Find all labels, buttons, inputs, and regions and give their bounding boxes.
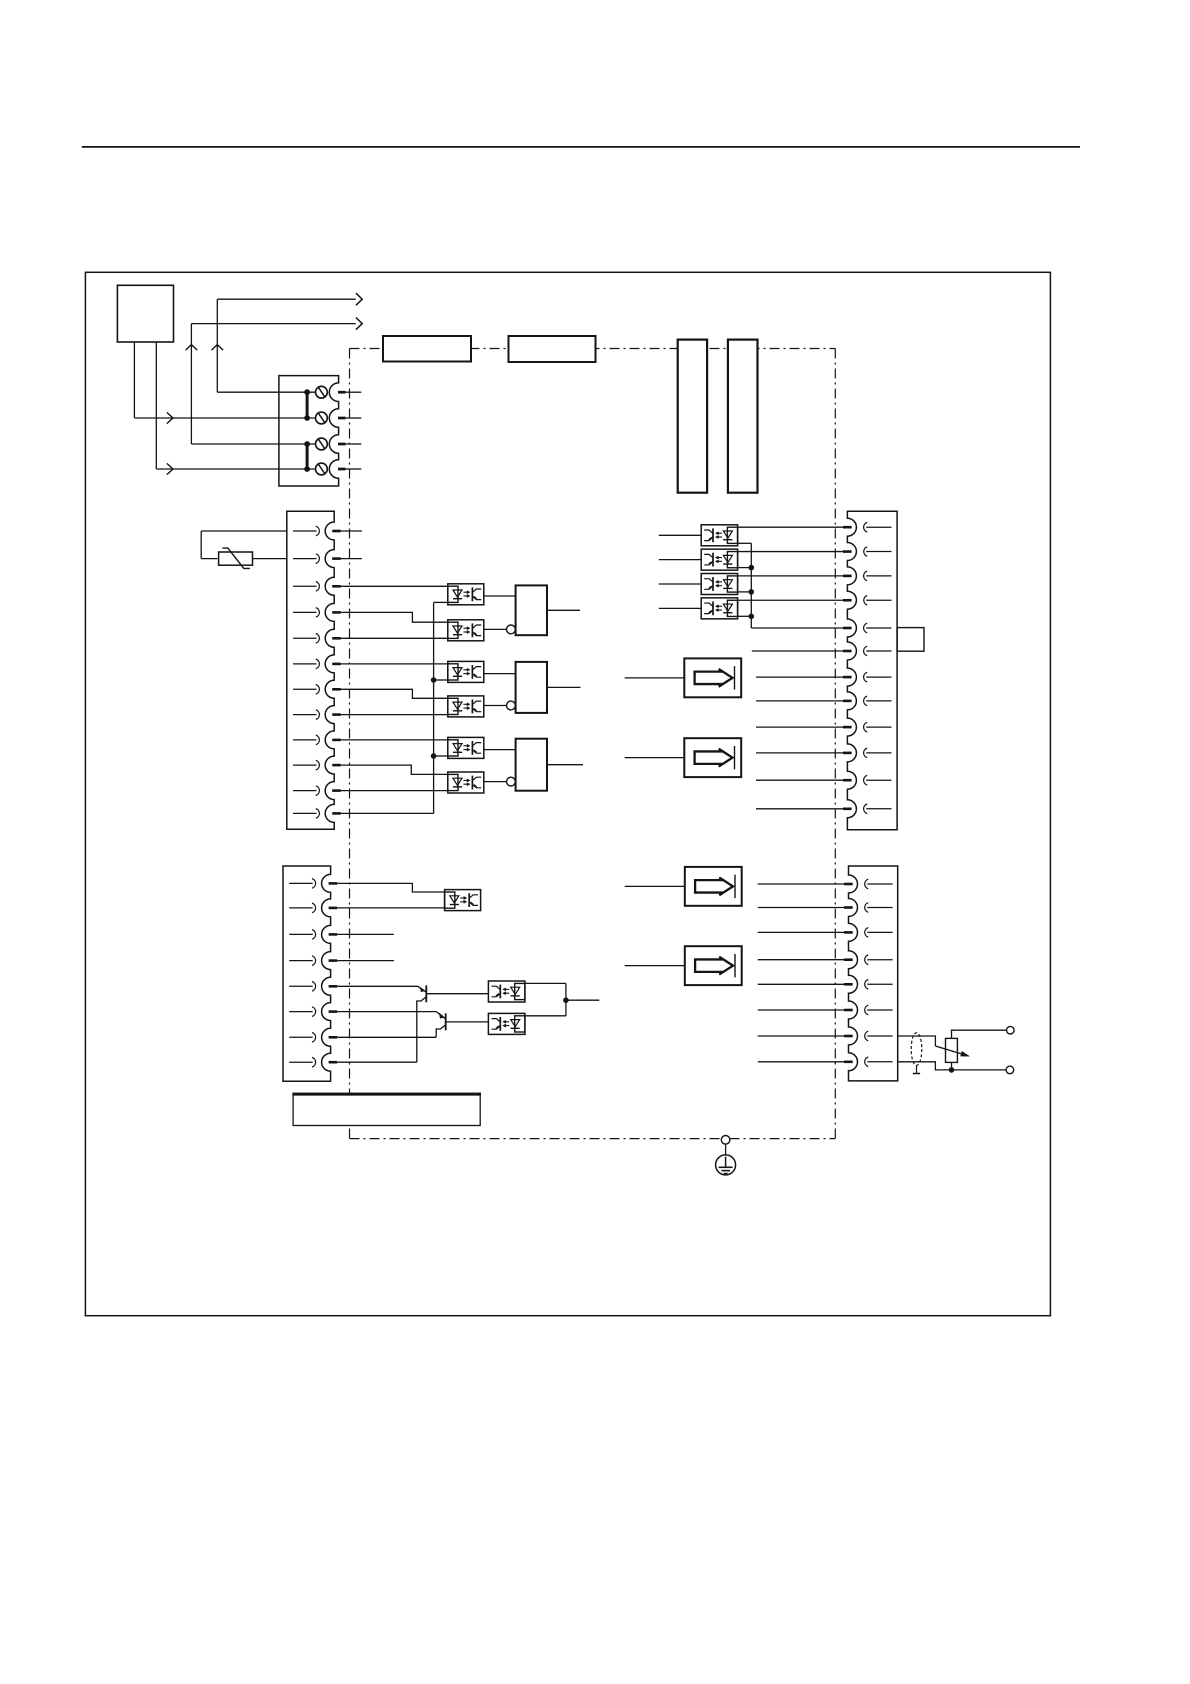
X30 pin 4 stub [843,599,852,602]
opto-coupler U3 [448,661,484,682]
X56 pin 8 arrow [289,1057,315,1067]
X31 pin 2 arrow [865,903,893,913]
terminal 2 pin stub and wire [338,417,361,420]
X55 pin 8 stub [332,713,341,716]
wire X56 pin 6 to transistor Q2 [337,1011,436,1013]
X56 pin 1 stub [329,882,338,885]
opto-coupler U4 [448,696,484,717]
wire X31 pin 2 [758,907,846,909]
driver A1 input wire [625,677,685,679]
wire X56 pin 8 to Q1 collector [337,1061,417,1063]
protective earth symbol [716,1155,736,1175]
X30 pin 2 arrow [864,547,892,557]
flow arrow up on L2 [186,345,198,351]
X31 pin 1 arrow [865,879,893,889]
opto-coupler U2 [448,620,484,641]
X30 pin 8 arrow [864,696,892,706]
screw terminal 4 [316,463,328,475]
opto U6 output wire [484,781,507,783]
wire X55 pin 2 stub inside [341,558,362,560]
terminal 3 pin stub and wire [338,443,361,446]
X30 pin 12 arrow [864,804,892,814]
X31 pin 3 arrow [865,928,893,938]
X55 pin 7 arrow [293,685,319,695]
wire Q2 base to opto U13 [446,1021,489,1023]
opto U4 output wire [484,705,507,707]
X56 pin 5 arrow [289,982,315,992]
X30 pin 4 arrow [864,596,892,606]
jumper link terminals 3-4 [304,441,310,472]
figure frame [85,272,1050,1315]
junction node pot-return [949,1067,955,1073]
X55 pin 6 arrow [293,659,319,669]
arrowhead L2 out [356,318,362,330]
wire opto U7 to X30 pin 1 [738,526,845,528]
arrowhead L1 out [356,293,362,305]
cable shield [911,1033,922,1074]
gate G2 output wire [547,686,581,688]
wire X31 pin 1 [758,883,846,885]
X31 pin 7 arrow [865,1031,893,1041]
wire X30 pin 10 [756,752,844,754]
potentiometer bottom lead [951,1062,953,1070]
opto U1 output wire [484,595,516,597]
wire X31 pin 5 [758,983,846,985]
control connector X55 (left) [287,511,334,829]
analog driver A1 [684,658,741,697]
X30 pin 1 arrow [864,522,892,532]
X55 pin 5 stub [332,637,341,640]
wire supply box to terminal 2 [134,342,315,418]
mains terminal block body [279,376,339,486]
X56 pin 4 stub [329,959,338,962]
wire X56 pin 1 to opto U11 [337,883,444,892]
wire Q1 base to opto U12 [426,993,488,995]
terminal circle bottom [1006,1066,1014,1074]
X30 pin 12 stub [843,807,852,810]
X30 pin 6 stub [843,650,852,653]
junction node rail-U3 [431,677,437,683]
X30 pin 7 stub [843,676,852,679]
X30 pin 3 stub [843,575,852,578]
wire opto U10 to X30 pin 4 [738,599,845,601]
opto U2 output wire [484,628,507,630]
wire X55 pin 11 to opto U6 return [341,790,448,792]
flow arrow right terminal 4 [167,463,173,474]
wire X56 pin 7 to Q2 collector [337,1036,436,1038]
wire mains L1 to terminal 1 [217,299,355,392]
PE wire [725,1144,727,1155]
junction node rail-U9 [749,589,755,595]
output opto common rail [738,543,845,628]
thermistor wire loop [201,531,287,559]
wire opto U9 to X30 pin 3 [738,575,845,577]
analog driver A3 [685,867,742,906]
wire X30 pin 8 [756,700,844,702]
wire opto U8 to X30 pin 2 [738,551,845,553]
wire X55 pin 8 to opto U4 return [341,714,448,716]
X30 pin 10 stub [843,752,852,755]
X55 pin 12 stub [332,812,341,815]
X55 pin 4 stub [332,611,341,614]
X56 pin 6 stub [329,1010,338,1013]
wire X55 pin 10 to opto U6 [341,765,448,774]
gate G1 output wire [547,609,580,611]
opto U9 input wire [659,583,701,585]
wire X31 pin 8 to terminal [898,1062,1006,1070]
X55 pin 8 arrow [293,710,319,720]
wire X30 pin 11 [756,779,844,781]
X55 pin 2 stub [332,557,341,560]
X31 pin 3 stub [844,931,853,934]
X56 pin 4 arrow [289,956,315,966]
transistor Q2 [436,1012,446,1038]
X31 pin 8 arrow [865,1057,893,1067]
X31 pin 6 arrow [865,1005,893,1015]
X30 pin 6 arrow [864,646,892,656]
X56 pin 8 stub [329,1061,338,1064]
wire X55 pin 7 to opto U4 [341,689,448,698]
wire X56 pin 4 stub inside [337,960,394,962]
X30 pin 5 stub [843,627,852,630]
wire X31 pin 7 to potentiometer wiper [898,1036,936,1046]
gate G3 output wire [547,764,583,766]
wire X31 pin 6 [758,1009,846,1011]
X56 pin 1 arrow [289,879,315,889]
flow arrow right terminal 2 [167,412,173,423]
X55 pin 10 arrow [293,760,319,770]
inverter bubble G3 [507,777,516,786]
driver A3 input wire [625,885,685,887]
DC-link capacitor C2 (tall) [728,340,758,493]
control connector X56 (lower left) [283,866,331,1081]
RS-485 interface box [292,1093,481,1125]
opto-coupler U6 [448,772,484,793]
wire X55 pin 12 to common rail [341,812,434,814]
opto-coupler U11 [445,890,481,911]
X56 pin 7 arrow [289,1033,315,1043]
terminal circle top [1007,1026,1015,1034]
wire X55 pin 9 to opto U5 [341,739,448,741]
wire X55 pin 3 to opto U1 [341,585,448,587]
logic gate G1 [516,585,547,635]
X55 pin 11 stub [332,789,341,792]
X55 pin 10 stub [332,764,341,767]
X55 pin 11 arrow [293,786,319,796]
junction node rail-U8 [749,565,755,571]
X55 pin 1 stub [332,530,341,533]
X55 pin 4 arrow [293,608,319,618]
X31 pin 4 arrow [865,955,893,965]
wire X31 pin 8 [758,1061,846,1063]
X56 pin 2 arrow [289,903,315,913]
X30 side tab [897,628,924,652]
X30 pin 3 arrow [864,571,892,581]
driver A4 input wire [625,965,685,967]
X30 pin 11 arrow [864,775,892,785]
terminal 1 pin stub and wire [338,391,361,394]
wire X31 pin 7 [758,1035,846,1037]
X31 pin 2 stub [844,906,853,909]
jumper link terminals 1-2 [304,389,310,421]
wire X56 pin 2 to opto U11 return [337,907,444,909]
analog driver A2 [684,738,741,777]
analog driver A4 [685,946,742,985]
X55 pin 3 stub [332,585,341,588]
drive enclosure outline (dash-dot) [350,349,836,1139]
X31 pin 5 arrow [865,980,893,990]
X55 pin 2 arrow [293,554,319,564]
DC-link capacitor C1 (tall) [678,340,707,493]
X31 pin 6 stub [844,1009,853,1012]
wire supply box to terminal 4 [156,342,315,469]
opto U10 input wire [659,607,701,609]
opto-coupler U1 [448,584,484,605]
wire X55 pin 1 stub inside [341,530,362,532]
wire X56 pin 3 stub inside [337,933,394,935]
wire opto U12/U13 outputs [525,983,599,1015]
junction node rail-U5 [431,753,437,759]
wire X30 pin 6 [752,650,844,652]
X56 pin 5 stub [329,985,338,988]
junction node rail-U10 [749,614,755,620]
control connector X30 (right) [847,511,897,830]
wire X55 pin 6 to opto U3 [341,663,448,665]
opto U5 output wire [484,749,516,751]
PE terminal node [721,1136,730,1145]
flow arrow up on L1 [212,345,224,351]
wire X30 pin 12 [756,808,844,810]
inverter bubble G1 [507,625,516,634]
opto-coupler U10 [701,598,737,619]
X31 pin 4 stub [844,958,853,961]
X31 pin 8 stub [844,1061,853,1064]
X30 pin 8 stub [843,700,852,703]
X55 pin 1 arrow [293,526,319,536]
wire X30 pin 9 [756,726,844,728]
screw terminal 1 [316,386,328,398]
logic gate G3 [516,739,547,791]
X30 pin 10 arrow [864,748,892,758]
X56 pin 3 arrow [289,930,315,940]
driver A2 input wire [625,757,685,759]
opto-coupler U12 [488,981,525,1002]
X55 pin 3 arrow [293,582,319,592]
SMPS box [509,336,596,362]
X30 pin 1 stub [843,526,852,529]
X55 pin 6 stub [332,663,341,666]
opto-coupler U5 [448,737,484,758]
wire X55 pin 4 to opto U2 [341,612,448,622]
X56 pin 2 stub [329,907,338,910]
X56 pin 6 arrow [289,1007,315,1017]
potentiometer wiper arrow [935,1046,969,1056]
opto-coupler U13 [488,1013,525,1034]
opto-coupler U8 [701,549,737,570]
X56 pin 3 stub [329,933,338,936]
X55 pin 5 arrow [293,634,319,644]
X31 pin 1 stub [844,883,853,886]
page rule [82,146,1080,148]
opto common rail [434,602,448,813]
X30 pin 2 stub [843,550,852,553]
logic gate G2 [516,662,547,713]
wire X55 pin 5 to opto U2 return [341,637,448,639]
terminal 4 pin stub and wire [338,468,361,471]
opto U3 output wire [484,673,516,675]
X55 pin 7 stub [332,688,341,691]
X56 pin 7 stub [329,1036,338,1039]
opto U7 input wire [659,534,701,536]
opto-coupler U9 [701,574,737,595]
wire mains L2 to terminal 3 [191,324,355,444]
X30 pin 9 stub [843,726,852,729]
X55 pin 9 stub [332,739,341,742]
X55 pin 12 arrow [293,809,319,819]
wire X31 pin 4 [758,959,846,961]
potentiometer top lead [952,1030,1007,1038]
wire X31 pin 3 [758,931,846,933]
X30 pin 5 arrow [864,623,892,633]
thermistor R-PTC [219,548,253,568]
wire X30 pin 7 [756,676,844,678]
inverter bubble G2 [507,701,516,710]
opto-coupler U7 [701,525,737,546]
X55 pin 9 arrow [293,735,319,745]
X30 pin 11 stub [843,779,852,782]
X31 pin 7 stub [844,1035,853,1038]
wire X56 pin 5 to transistor Q1 [337,985,418,987]
X30 pin 9 arrow [864,722,892,732]
screw terminal 2 [316,412,328,424]
X30 pin 7 arrow [864,672,892,682]
control connector X31 (lower right) [849,866,898,1081]
potentiometer R2 [946,1038,958,1062]
X31 pin 5 stub [844,983,853,986]
junction node U12-U13 [563,997,569,1003]
opto U8 input wire [659,559,701,561]
mains supply box [117,285,173,342]
transistor Q1 [417,985,427,1062]
RFI filter box [383,336,471,362]
screw terminal 3 [316,438,328,450]
